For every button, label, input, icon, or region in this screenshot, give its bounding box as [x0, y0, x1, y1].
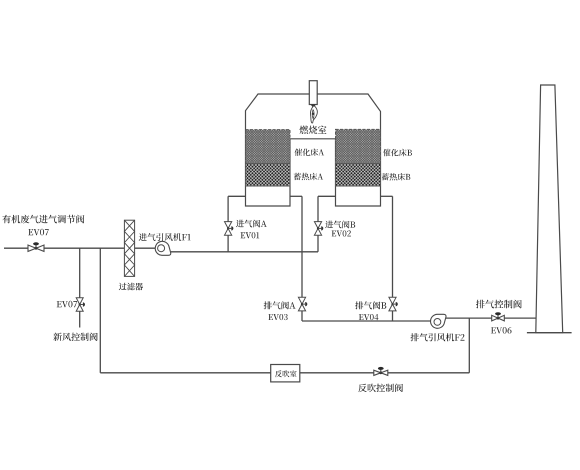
label exhaust control valve	[476, 300, 522, 309]
filter	[124, 220, 134, 276]
label intake valve B	[325, 221, 355, 229]
heat storage bed A	[246, 164, 291, 187]
valve EV07 fresh air	[76, 298, 85, 312]
combustion chamber vessel outline	[246, 94, 381, 206]
wire tower B right stub	[381, 195, 393, 197]
wire exhaust line right	[446, 317, 537, 319]
wire intake line left	[4, 247, 155, 249]
wire EV04 downpipe	[392, 196, 394, 321]
label combustion chamber	[300, 126, 327, 135]
wire EV03 downpipe	[301, 196, 303, 321]
label EV06	[491, 327, 512, 334]
valve EV01	[225, 222, 234, 236]
wire backblow downpipe	[99, 248, 101, 373]
label heat bed B	[382, 173, 411, 181]
label exhaust fan F2	[411, 333, 465, 341]
wire fresh air branch	[79, 248, 81, 327]
wire tower A left stub	[228, 195, 245, 197]
label EV02	[332, 230, 351, 236]
label fresh air control valve	[53, 333, 97, 341]
stack chimney	[527, 85, 572, 333]
burner flame	[310, 105, 317, 124]
valve EV06	[492, 312, 505, 321]
label exhaust valve A	[264, 301, 296, 309]
wire EV01 riser	[227, 196, 229, 252]
wire tower B left stub	[318, 195, 336, 197]
backblow chamber box	[271, 365, 300, 382]
catalyst bed B	[336, 129, 381, 163]
heat storage bed B	[336, 164, 381, 187]
catalyst bed A	[246, 130, 291, 164]
label EV07 main	[28, 229, 48, 236]
label organic waste gas intake regulating valve	[2, 215, 84, 224]
label backblow chamber	[275, 370, 297, 377]
label EV01	[241, 232, 260, 238]
label EV03	[268, 314, 287, 320]
wire exhaust line left	[302, 320, 431, 322]
valve EV02	[314, 222, 323, 236]
label backblow control valve	[358, 384, 403, 393]
wire backblow line left	[100, 372, 270, 374]
label filter	[119, 283, 143, 291]
valve backblow control	[374, 367, 388, 376]
wire intake line right	[171, 251, 318, 253]
wire tower A right stub	[290, 195, 302, 197]
label catalyst bed B	[383, 149, 412, 157]
label intake valve A	[236, 220, 267, 228]
burner nozzle	[309, 81, 317, 105]
label catalyst bed A	[295, 149, 325, 157]
valve EV03	[298, 297, 307, 311]
label EV07 fresh air	[57, 301, 77, 308]
label heat bed A	[294, 173, 323, 181]
fan F2	[431, 314, 447, 328]
wire EV02 riser	[317, 196, 319, 252]
label EV04	[359, 314, 379, 320]
label intake fan F1	[139, 233, 191, 241]
wire backblow line right	[300, 372, 470, 374]
valve EV04	[389, 297, 398, 311]
label exhaust valve B	[355, 301, 386, 309]
valve EV07 main	[28, 242, 44, 251]
fan F1	[155, 241, 171, 255]
wire backblow riser	[468, 318, 470, 373]
